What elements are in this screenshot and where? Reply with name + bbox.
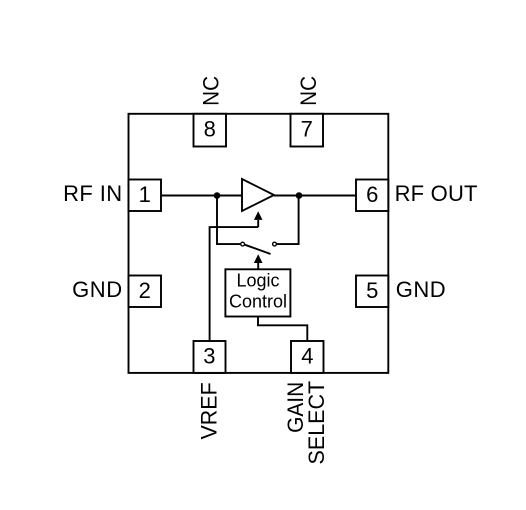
wire: logic control to pin 4 [258, 317, 307, 342]
svg-text:RF IN: RF IN [63, 181, 122, 206]
wire: node A down to switch left contact [217, 196, 240, 245]
svg-text:Control: Control [229, 291, 287, 311]
svg-text:8: 8 [204, 117, 216, 142]
gain-control arrow into amplifier [254, 211, 263, 220]
pin 3 box [194, 341, 226, 373]
switch lever SW1 [245, 245, 271, 254]
pin 5 box [356, 276, 388, 308]
svg-text:Logic: Logic [236, 270, 279, 290]
switch actuate arrow from logic control [254, 254, 263, 263]
svg-text:1: 1 [139, 182, 151, 207]
wire: node B down to switch right contact [277, 196, 299, 245]
switch left contact [241, 242, 245, 246]
svg-text:GND: GND [396, 277, 447, 302]
svg-text:NC: NC [199, 76, 224, 106]
svg-text:VREF: VREF [196, 382, 221, 439]
wire: amplifier output to pin 6 [274, 195, 356, 197]
svg-text:5: 5 [366, 278, 378, 303]
svg-text:GND: GND [72, 277, 123, 302]
wire: pin 1 to amplifier input (y=195) [161, 195, 242, 197]
svg-text:3: 3 [203, 344, 215, 369]
pin 8 box [194, 114, 227, 147]
pin 2 box [129, 276, 162, 308]
op-amp / amplifier triangle [242, 179, 274, 211]
pin 4 box [291, 341, 324, 373]
junction node A (input side dot) [214, 192, 221, 199]
pin 6 box [356, 180, 388, 212]
svg-text:2: 2 [139, 278, 151, 303]
switch right contact [273, 242, 277, 246]
junction node B (output side dot) [296, 192, 303, 199]
svg-text:7: 7 [301, 117, 313, 142]
logic control box U2 [225, 269, 290, 316]
pin 1 box [129, 180, 162, 212]
IC package outline U1 [129, 114, 389, 373]
svg-text:RF OUT: RF OUT [395, 181, 478, 206]
svg-text:6: 6 [366, 182, 378, 207]
pin 7 box [291, 114, 324, 147]
svg-text:SELECT: SELECT [304, 381, 329, 465]
svg-text:4: 4 [301, 344, 313, 369]
svg-text:NC: NC [296, 76, 321, 106]
wire: gain-control elbow to pin 3 [210, 227, 259, 341]
